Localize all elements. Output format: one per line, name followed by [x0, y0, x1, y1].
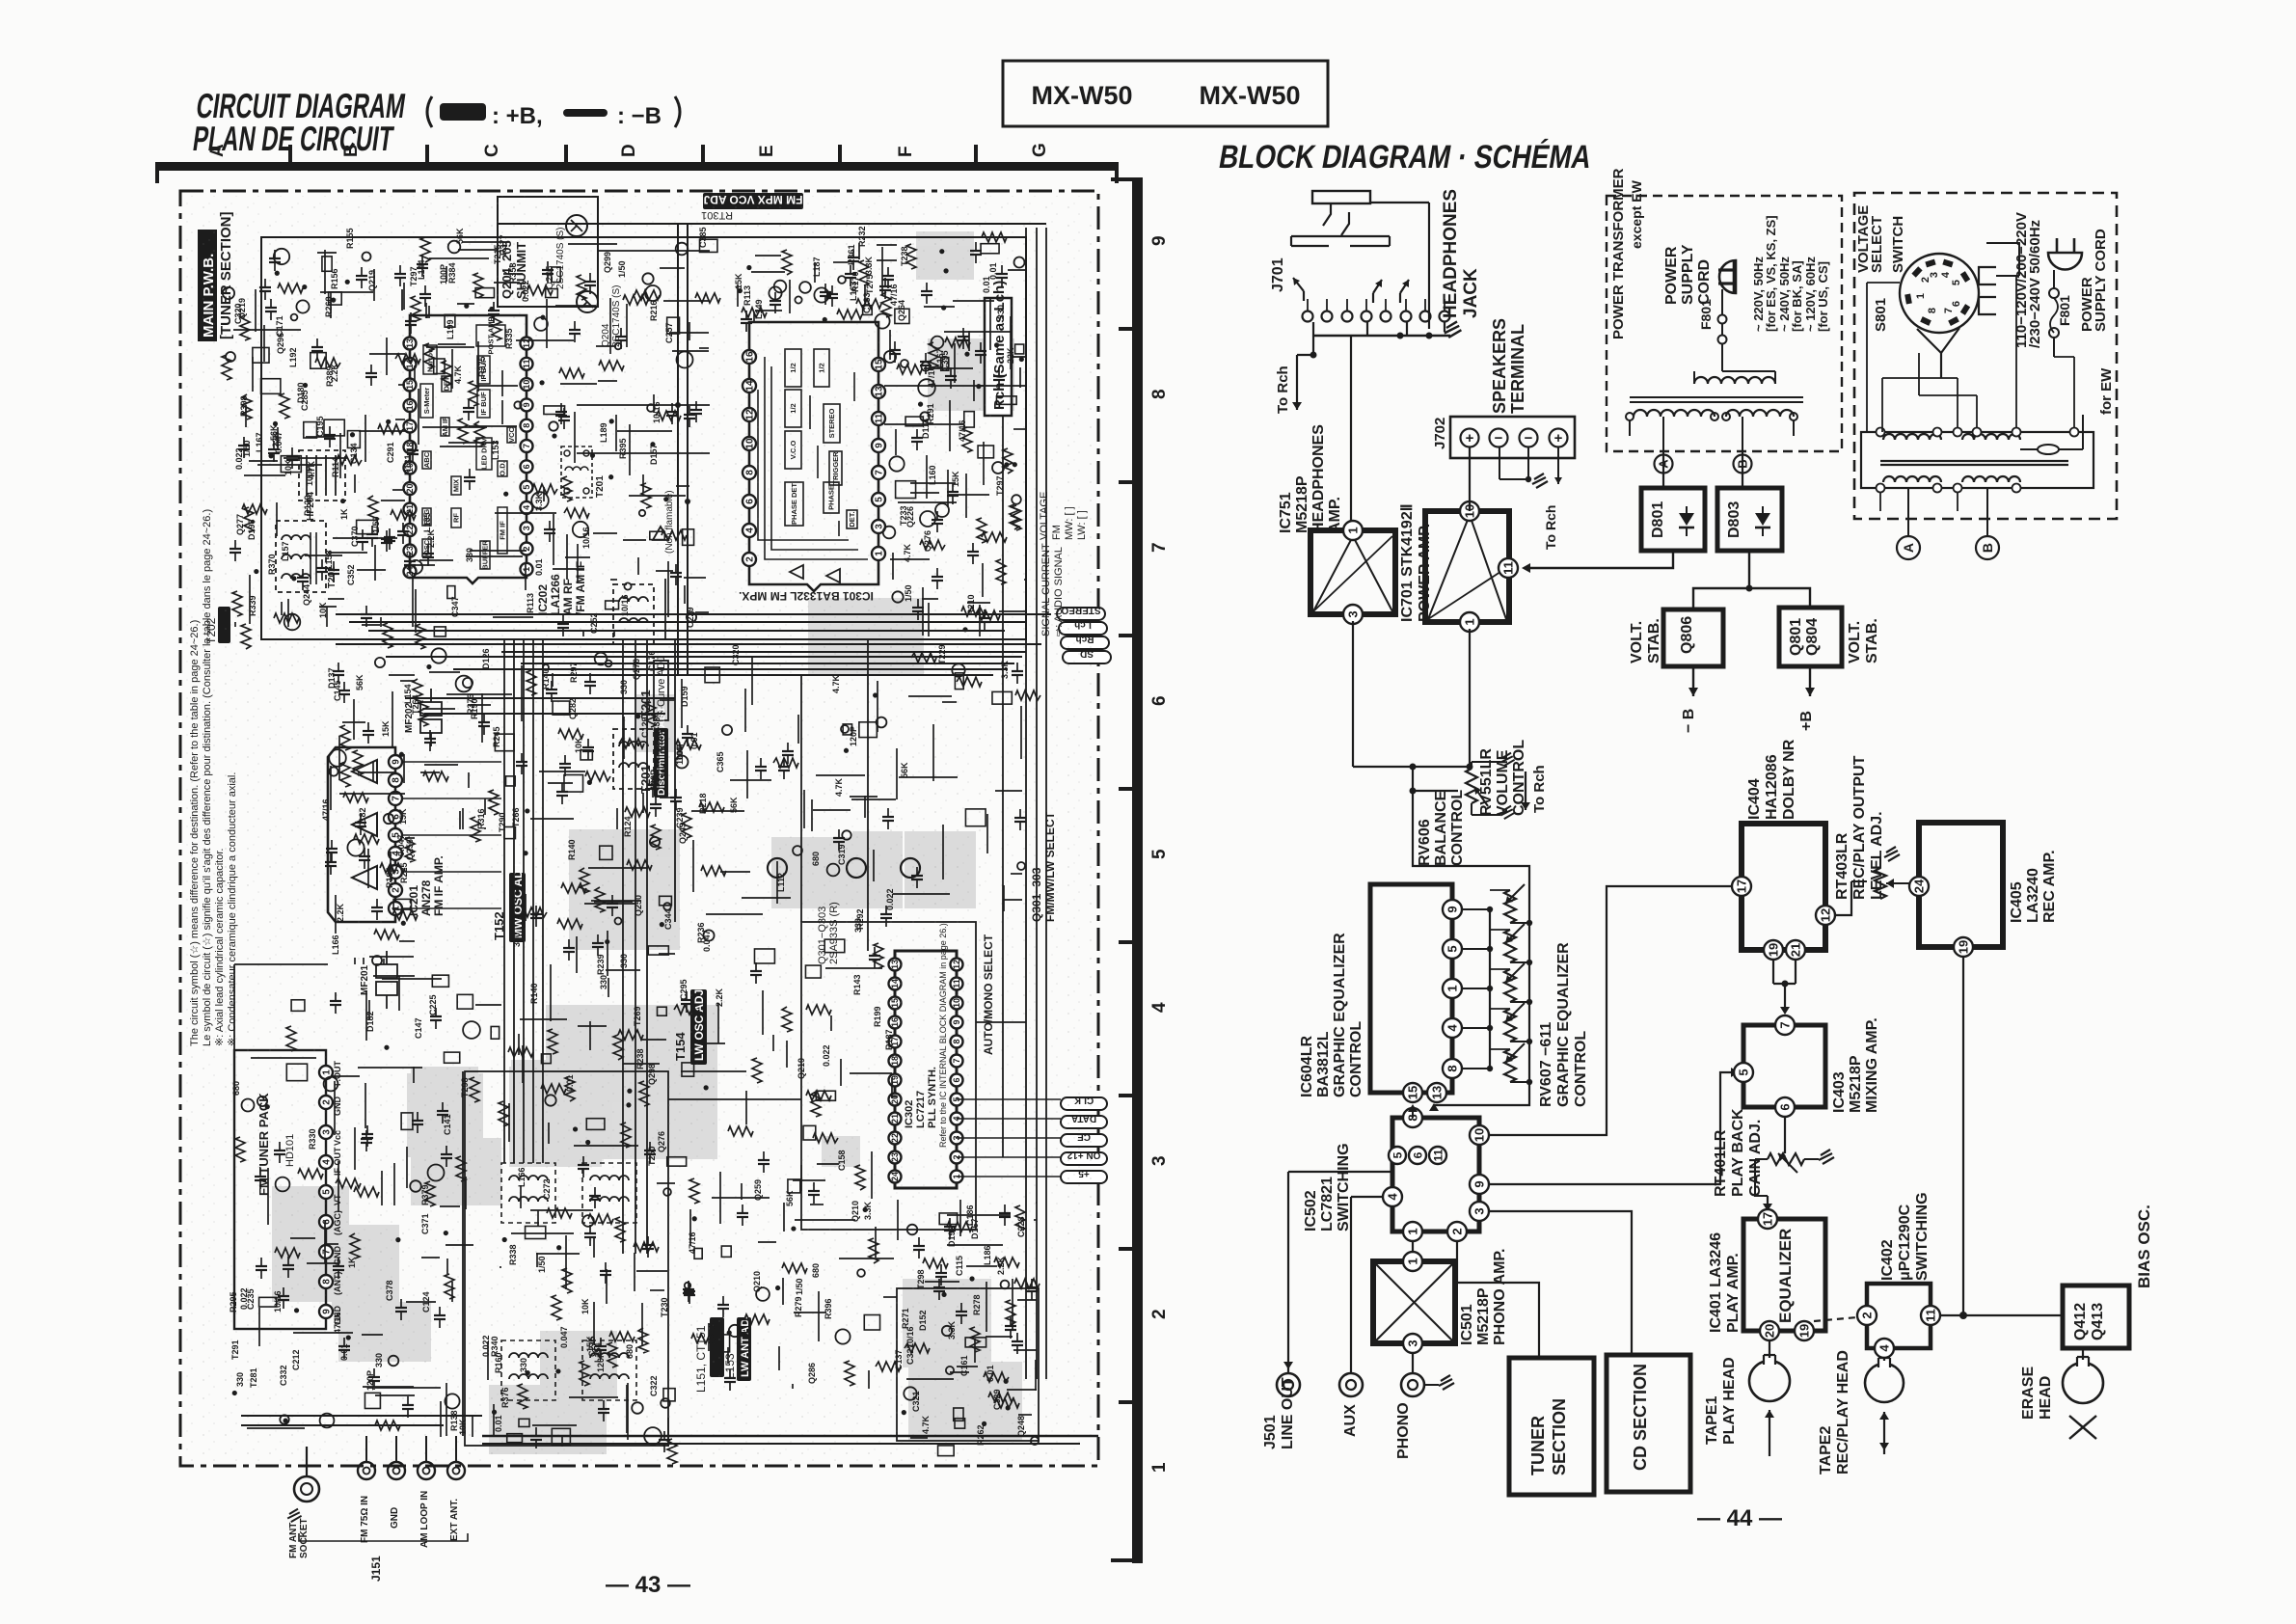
svg-text:POWER: POWER — [1663, 246, 1680, 305]
svg-text:Q226: Q226 — [905, 506, 915, 528]
component cluster K (PLL surroundings) — [679, 908, 901, 1391]
svg-text:VOLUME: VOLUME — [1495, 749, 1511, 816]
svg-text:R232: R232 — [857, 226, 867, 247]
svg-text:GRAPHIC EQUALIZER: GRAPHIC EQUALIZER — [1555, 942, 1572, 1107]
rec amp IC405 — [1907, 823, 2058, 957]
svg-text:0.047: 0.047 — [559, 1326, 569, 1348]
svg-text:10K: 10K — [581, 1298, 590, 1314]
adjust label T201 Discriminator ADJ — [638, 708, 668, 798]
svg-text:0.01: 0.01 — [534, 558, 544, 576]
svg-text:8: 8 — [1927, 308, 1938, 313]
transistor Q205 — [577, 285, 622, 347]
svg-text:C344: C344 — [663, 908, 673, 930]
svg-text:C115: C115 — [955, 1256, 964, 1276]
svg-text:R377: R377 — [499, 234, 508, 256]
svg-text:C235: C235 — [246, 1288, 256, 1310]
op-amp IC201 AN278 FM IF AMP box — [328, 747, 446, 922]
note text (destination note, rotated) — [189, 509, 238, 1046]
svg-text:15: 15 — [1406, 1086, 1420, 1099]
svg-text:JACK: JACK — [1461, 268, 1481, 318]
svg-text:MX-W50: MX-W50 — [1199, 81, 1300, 110]
component cluster J (lower-mid) — [494, 812, 699, 1464]
node A — [1655, 455, 1673, 474]
svg-text:R395: R395 — [618, 438, 628, 459]
svg-text:Q276: Q276 — [657, 1131, 666, 1152]
svg-text:Q286: Q286 — [655, 731, 664, 752]
svg-text:10K: 10K — [458, 1419, 468, 1435]
svg-text:REC AMP.: REC AMP. — [2041, 850, 2058, 923]
svg-text:F: F — [896, 146, 916, 157]
svg-text:C176: C176 — [647, 650, 657, 671]
adjust label T154 LW OSC ADJ — [673, 989, 707, 1065]
svg-text:C371: C371 — [420, 1213, 430, 1234]
cd section box — [1489, 1211, 1690, 1492]
svg-text:SWITCHING: SWITCHING — [1914, 1192, 1931, 1281]
svg-text:R239: R239 — [596, 954, 606, 975]
svg-text:D: D — [619, 144, 639, 157]
svg-text:0.01: 0.01 — [494, 1415, 503, 1432]
svg-text:C229: C229 — [686, 607, 695, 628]
wire IC405 pin19 to IC402 pin11 and Q412 — [1940, 957, 2063, 1319]
svg-text:MIXING AMP.: MIXING AMP. — [1864, 1017, 1880, 1113]
switching IC502 — [1303, 1104, 1489, 1241]
net pills STEREO Lch Rch SD — [1057, 605, 1111, 663]
wire D803 to regulators — [1693, 551, 1810, 609]
svg-text:AUX: AUX — [1342, 1404, 1359, 1437]
svg-text:0.022: 0.022 — [481, 1335, 491, 1357]
svg-text:3: 3 — [1406, 1340, 1420, 1346]
adjust label FM MPX VCO ADJ — [701, 193, 803, 221]
svg-text:120P: 120P — [365, 1370, 375, 1391]
svg-text:7: 7 — [1778, 1021, 1793, 1028]
adjust label T152 MW OSC ADJ — [492, 863, 526, 942]
svg-text:4.7K: 4.7K — [307, 460, 316, 479]
rectifier D803 — [1717, 488, 1782, 551]
svg-text:680: 680 — [625, 1344, 635, 1359]
wire transformer to rectifiers — [1662, 455, 1664, 488]
svg-text:4.7K: 4.7K — [921, 1415, 931, 1434]
svg-text:Q413: Q413 — [2090, 1303, 2106, 1340]
svg-text:C295: C295 — [679, 979, 689, 1000]
dashed wire IC401 pin19 to IC402 pin2 — [1814, 1317, 1857, 1321]
svg-text:D129: D129 — [303, 495, 312, 516]
svg-text:L166: L166 — [517, 1167, 527, 1187]
svg-text:Q210: Q210 — [851, 1201, 860, 1222]
svg-text:330: 330 — [512, 933, 522, 947]
svg-text:D159: D159 — [680, 686, 689, 707]
label T202 — [204, 607, 230, 644]
component cluster E (F-G cols) — [883, 232, 1027, 636]
svg-text:Q219: Q219 — [237, 298, 247, 319]
svg-text:R268: R268 — [324, 296, 334, 317]
svg-text:15K: 15K — [381, 720, 391, 737]
label MAIN P.W.B. (TUNER SECTION) — [198, 212, 234, 342]
transformer T201 (discriminator) — [613, 729, 654, 789]
IC302 LC7217 PLL SYNTH box — [889, 923, 963, 1188]
svg-text:B: B — [1980, 543, 1995, 553]
svg-text:3.3K: 3.3K — [947, 1320, 957, 1340]
component cluster M (top C col) — [409, 241, 500, 323]
svg-text:3: 3 — [1472, 1207, 1487, 1214]
svg-text:T281: T281 — [249, 1367, 258, 1388]
graphic equalizer IC604LR — [1299, 884, 1462, 1102]
svg-text:R114: R114 — [331, 457, 340, 477]
svg-text:R279: R279 — [794, 1296, 803, 1317]
svg-text:1/50: 1/50 — [904, 584, 913, 602]
volume control RV551LR — [1353, 621, 1527, 819]
svg-text:9: 9 — [1445, 906, 1460, 912]
svg-text:GRAPHIC EQUALIZER: GRAPHIC EQUALIZER — [1332, 933, 1348, 1097]
svg-text:0.022: 0.022 — [521, 280, 530, 302]
transistor Q204 — [545, 215, 587, 289]
ceramic filter MF202 — [404, 689, 442, 746]
svg-text:120P: 120P — [849, 726, 858, 746]
svg-text:Q286: Q286 — [807, 1363, 817, 1384]
svg-text:PLAY BACK: PLAY BACK — [1730, 1108, 1746, 1197]
tape2 rec/play head — [1818, 1350, 1904, 1475]
svg-text:R376: R376 — [500, 1387, 510, 1408]
svg-text:R396: R396 — [824, 1298, 833, 1319]
svg-text:T230: T230 — [660, 1297, 669, 1317]
svg-text:Q299: Q299 — [603, 252, 612, 273]
svg-text:C370: C370 — [350, 526, 360, 547]
svg-text:POWER TRANSFORMER: POWER TRANSFORMER — [1610, 168, 1627, 339]
svg-text:HEADPHONES: HEADPHONES — [1441, 189, 1461, 318]
svg-text:M5218P: M5218P — [1294, 475, 1310, 533]
svg-text:1: 1 — [1406, 1258, 1420, 1264]
svg-text:120P: 120P — [649, 770, 659, 790]
node B — [1734, 455, 1752, 474]
svg-text:19: 19 — [1767, 943, 1781, 957]
svg-text:330: 330 — [619, 954, 629, 968]
svg-text:2.2K: 2.2K — [336, 903, 345, 922]
svg-text:L160: L160 — [928, 465, 937, 485]
svg-text:C352: C352 — [346, 564, 356, 585]
rectifier D801 — [1641, 488, 1705, 551]
svg-text:1: 1 — [1463, 618, 1477, 625]
svg-text:D152: D152 — [918, 1310, 928, 1331]
svg-text:7: 7 — [1149, 542, 1170, 553]
svg-text:except EW: except EW — [1629, 179, 1644, 249]
svg-text:J151: J151 — [369, 1556, 383, 1582]
svg-text:1: 1 — [1915, 293, 1927, 299]
svg-text:C378: C378 — [385, 1280, 394, 1301]
svg-text:Q276: Q276 — [923, 530, 932, 552]
component cluster L (lower-right LPF) — [894, 1200, 1040, 1456]
svg-text:1: 1 — [1346, 527, 1361, 533]
svg-text:[for BK, SA]: [for BK, SA] — [1790, 260, 1804, 332]
svg-text:R338: R338 — [508, 1244, 518, 1265]
svg-text:R124: R124 — [623, 816, 633, 837]
svg-text:R216: R216 — [649, 300, 659, 321]
svg-text:RT401LR: RT401LR — [1713, 1129, 1729, 1197]
op-amp IC202 LA1266 box — [404, 315, 588, 615]
svg-text:330: 330 — [619, 680, 629, 694]
svg-text:3: 3 — [1149, 1155, 1170, 1166]
svg-text:680: 680 — [811, 852, 821, 866]
svg-text:T250: T250 — [647, 1146, 657, 1166]
svg-text:1: 1 — [1406, 1228, 1420, 1234]
svg-text:C141: C141 — [443, 1114, 452, 1135]
svg-text:Q298: Q298 — [647, 1064, 657, 1085]
svg-text:Q277: Q277 — [235, 514, 245, 535]
BLOCK DIAGRAM title — [1216, 139, 1594, 176]
svg-text:C147: C147 — [414, 1017, 423, 1039]
net pills CLK DATA CE ON+12 +5 — [1061, 1095, 1107, 1183]
svg-text:6: 6 — [1778, 1103, 1793, 1110]
input jacks J501 — [1262, 1172, 1454, 1459]
svg-text:R140: R140 — [541, 668, 551, 690]
svg-text:Q248: Q248 — [1016, 1416, 1026, 1437]
svg-text:L186: L186 — [983, 1245, 992, 1265]
svg-text:IC701 STK4192Ⅱ: IC701 STK4192Ⅱ — [1399, 503, 1416, 622]
row number bar 1-9 — [1111, 177, 1170, 1563]
svg-text:+: + — [1554, 430, 1563, 447]
svg-text:4.7K: 4.7K — [831, 674, 841, 693]
svg-text:1/50: 1/50 — [242, 440, 252, 457]
switching IC402 — [1857, 1192, 1940, 1358]
svg-text:SOCKET: SOCKET — [299, 1518, 310, 1558]
svg-text:TAPE1: TAPE1 — [1704, 1396, 1720, 1445]
svg-text:R271: R271 — [901, 1308, 910, 1329]
svg-text:E: E — [757, 145, 777, 157]
svg-text:1/50: 1/50 — [795, 1278, 804, 1295]
svg-text:R379: R379 — [420, 1184, 430, 1205]
svg-text:Q801: Q801 — [1788, 618, 1804, 656]
svg-text:D803: D803 — [1726, 501, 1742, 538]
svg-text:REC/PLAY OUTPUT: REC/PLAY OUTPUT — [1851, 755, 1868, 900]
svg-text:3.3K: 3.3K — [534, 492, 544, 511]
svg-text:3.3K: 3.3K — [1000, 660, 1010, 679]
legend (+B / -B) — [427, 96, 680, 129]
svg-text:J701: J701 — [1270, 257, 1286, 292]
svg-text:AM LOOP IN: AM LOOP IN — [419, 1491, 430, 1548]
svg-text:4.7K: 4.7K — [834, 777, 844, 797]
svg-text:RV607 −611: RV607 −611 — [1538, 1022, 1554, 1107]
svg-text:2.2K: 2.2K — [330, 363, 339, 382]
svg-text:R143: R143 — [852, 974, 862, 995]
svg-text:T275: T275 — [865, 274, 875, 294]
svg-text:BA3812L: BA3812L — [1315, 1031, 1332, 1097]
svg-text:ERASE: ERASE — [2020, 1367, 2037, 1420]
svg-text:D182: D182 — [365, 1011, 375, 1032]
component cluster D (above IC301) — [734, 226, 909, 332]
svg-text:R140: R140 — [529, 983, 539, 1004]
svg-text:PLAY HEAD: PLAY HEAD — [1721, 1357, 1738, 1445]
svg-text:T266: T266 — [511, 807, 521, 827]
svg-text:POWER AMP.: POWER AMP. — [1417, 524, 1433, 622]
svg-text:21: 21 — [1789, 943, 1803, 957]
svg-text:HEADPHONES: HEADPHONES — [1310, 424, 1327, 533]
svg-text:1: 1 — [1445, 985, 1460, 991]
svg-text:TAPE2: TAPE2 — [1818, 1426, 1834, 1475]
node A (EW) — [1897, 536, 1920, 559]
svg-text:5: 5 — [1737, 1069, 1751, 1075]
svg-text:R238: R238 — [635, 1048, 645, 1069]
wire D801 to IC701 pin11 — [1522, 551, 1673, 573]
headphones jack J701 — [1270, 189, 1481, 522]
svg-text:[for ES, VS, KS, ZS]: [for ES, VS, KS, ZS] — [1764, 215, 1778, 332]
svg-text:1/50: 1/50 — [617, 260, 627, 278]
svg-text:10K: 10K — [660, 762, 669, 778]
svg-text:D167: D167 — [970, 1218, 980, 1239]
graphic equalizer pots RV607-611 — [1462, 884, 1589, 1107]
svg-text:4: 4 — [1940, 271, 1952, 278]
svg-text:T291: T291 — [230, 1340, 240, 1360]
svg-text:4: 4 — [1445, 1024, 1460, 1032]
svg-text:FM ANT: FM ANT — [288, 1523, 299, 1558]
svg-text:D137: D137 — [327, 667, 337, 689]
svg-text:SWITCH: SWITCH — [1890, 216, 1906, 273]
wire IC502 pin9 to IC403 pin5 — [1489, 1068, 1739, 1184]
svg-text:μPC1290C: μPC1290C — [1897, 1204, 1913, 1281]
component cluster F (IC201 col) — [321, 658, 418, 965]
svg-text:L199: L199 — [446, 319, 455, 339]
svg-text:56K: 56K — [785, 1190, 795, 1206]
svg-text:330: 330 — [599, 975, 608, 989]
component cluster G (mid band) — [411, 648, 675, 850]
svg-text:C272: C272 — [542, 1178, 552, 1200]
svg-text:D192: D192 — [947, 1226, 957, 1247]
svg-text:R370: R370 — [267, 554, 277, 575]
wire bus pair (D col) — [677, 224, 679, 675]
svg-text:4: 4 — [1149, 1002, 1170, 1013]
svg-text:C347: C347 — [450, 596, 460, 617]
svg-text:C: C — [482, 144, 502, 157]
svg-text:47/16: 47/16 — [333, 1312, 342, 1334]
title CIRCUIT DIAGRAM / PLAN DE CIRCUIT — [189, 86, 408, 158]
erase head — [2020, 1348, 2103, 1439]
svg-text:24: 24 — [1912, 879, 1927, 893]
svg-text:L157: L157 — [281, 541, 290, 561]
lower-right LPF frame — [897, 1288, 1039, 1441]
node B (EW) — [1976, 536, 1999, 559]
svg-text:680: 680 — [811, 1263, 821, 1278]
svg-text:J702: J702 — [1432, 418, 1448, 449]
speakers terminal J702 — [1432, 318, 1575, 550]
svg-text:/230−240V 50/60Hz: /230−240V 50/60Hz — [2027, 220, 2043, 348]
svg-text:3: 3 — [1929, 272, 1940, 278]
svg-text:To Rch: To Rch — [1275, 365, 1291, 414]
svg-text:R361: R361 — [847, 244, 856, 265]
svg-text:R225: R225 — [399, 862, 409, 883]
svg-text:10: 10 — [1472, 1128, 1487, 1142]
svg-text:R375: R375 — [477, 356, 487, 377]
svg-text:S801: S801 — [1873, 298, 1889, 332]
svg-text:330: 330 — [519, 1358, 528, 1372]
svg-text:IC402: IC402 — [1879, 1239, 1896, 1281]
svg-text:56K: 56K — [900, 762, 909, 778]
svg-text:RV551LR: RV551LR — [1478, 748, 1495, 816]
transformer T202 — [276, 521, 338, 592]
dolby IC404 — [1732, 739, 1835, 960]
svg-text:SWITCHING: SWITCHING — [1336, 1143, 1352, 1232]
svg-text:R330: R330 — [308, 1128, 317, 1150]
svg-text:R155: R155 — [345, 228, 355, 249]
svg-text:REC/PLAY HEAD: REC/PLAY HEAD — [1835, 1350, 1851, 1475]
svg-text:R245: R245 — [492, 726, 501, 747]
svg-text:R291: R291 — [926, 403, 935, 424]
svg-text:5: 5 — [1445, 945, 1460, 952]
svg-text:T264: T264 — [411, 694, 420, 715]
svg-text:T269: T269 — [633, 1006, 642, 1026]
svg-text:IC751: IC751 — [1278, 492, 1294, 533]
svg-text:0.01: 0.01 — [988, 262, 998, 280]
svg-text:L189: L189 — [599, 422, 608, 443]
svg-text:C133: C133 — [862, 292, 872, 313]
svg-text:MF201: MF201 — [360, 964, 370, 995]
svg-text:R236: R236 — [696, 922, 706, 943]
mixing amp IC403 — [1734, 1015, 1880, 1117]
svg-text:SECTION: SECTION — [1550, 1398, 1569, 1475]
svg-text:47/16: 47/16 — [688, 1232, 697, 1254]
svg-text:C385: C385 — [698, 227, 708, 248]
svg-text:5: 5 — [1391, 1151, 1404, 1158]
svg-text:6: 6 — [1149, 695, 1170, 706]
svg-text:3.3K: 3.3K — [863, 1201, 873, 1220]
schematic dash-dot frame — [180, 191, 1098, 1466]
svg-text:Q256: Q256 — [405, 839, 415, 860]
svg-text:5: 5 — [1951, 280, 1962, 285]
svg-text:2: 2 — [1860, 1312, 1875, 1318]
svg-text:L192: L192 — [288, 347, 298, 367]
op-amp IC301 BA1332L FM MPX box — [739, 322, 885, 603]
svg-text:— 44 —: — 44 — — [1697, 1505, 1782, 1531]
ceramic filter MF201 — [360, 951, 397, 1009]
svg-text:TUNER: TUNER — [1528, 1416, 1548, 1475]
component cluster H (E-F mid) — [670, 644, 1040, 927]
svg-text:2: 2 — [1450, 1228, 1465, 1234]
svg-text:R292: R292 — [855, 908, 865, 930]
svg-text:VOLT.: VOLT. — [1629, 621, 1645, 663]
svg-text:9: 9 — [1149, 235, 1170, 246]
svg-text:R199: R199 — [873, 1006, 882, 1027]
svg-text:STAB.: STAB. — [1646, 618, 1662, 663]
svg-text:Q250: Q250 — [634, 895, 643, 916]
svg-text:6: 6 — [1411, 1151, 1424, 1158]
svg-text:R339: R339 — [248, 595, 257, 616]
power transformer (except EW) — [1607, 168, 1842, 455]
svg-text:1: 1 — [1149, 1462, 1170, 1473]
svg-text:R190: R190 — [470, 698, 479, 719]
svg-text:LEVEL ADJ.: LEVEL ADJ. — [1869, 811, 1885, 900]
svg-text:5: 5 — [1149, 849, 1170, 859]
svg-text:C322: C322 — [649, 1375, 659, 1396]
svg-text:0.022: 0.022 — [822, 1044, 831, 1067]
svg-text:2.2K: 2.2K — [996, 1256, 1006, 1275]
svg-text:C124: C124 — [421, 1291, 431, 1313]
svg-text:− B: − B — [1681, 709, 1697, 733]
svg-text:10/16: 10/16 — [273, 1290, 283, 1313]
component cluster C (col D top) — [615, 227, 720, 628]
svg-text:C212: C212 — [291, 1349, 301, 1370]
svg-text:T238: T238 — [900, 246, 909, 266]
svg-text:Q806: Q806 — [1679, 616, 1695, 654]
legend VOLTAGE / SIGNAL CURRENT (right margin of schematic) — [1039, 492, 1088, 636]
svg-text:11: 11 — [1431, 1149, 1445, 1161]
svg-text:C239: C239 — [675, 807, 685, 828]
svg-text:R295: R295 — [229, 1291, 238, 1313]
svg-text:7: 7 — [1943, 308, 1955, 313]
svg-text:L144: L144 — [417, 259, 426, 280]
svg-text:−: − — [1525, 430, 1533, 447]
Q204/205 box — [498, 197, 598, 307]
svg-text:CONTROL: CONTROL — [1348, 1021, 1364, 1097]
svg-text:CONTROL: CONTROL — [1449, 790, 1466, 866]
warning (Non flamable) — [653, 490, 675, 554]
svg-text:BALANCE: BALANCE — [1433, 790, 1449, 866]
svg-text:9: 9 — [1472, 1180, 1487, 1187]
